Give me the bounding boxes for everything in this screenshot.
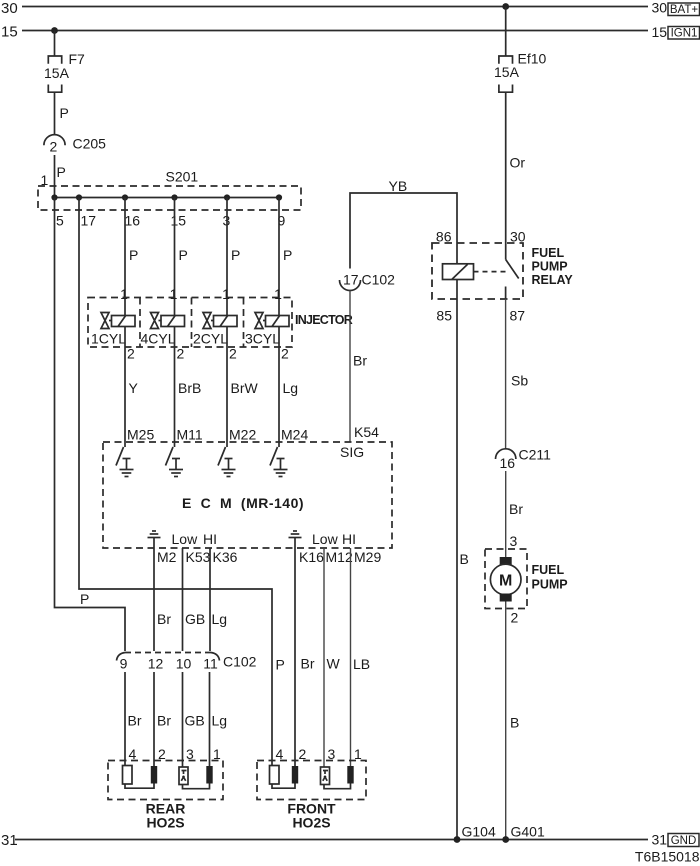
svg-text:M11: M11 [177, 427, 203, 443]
wire fuse Ef10 to relay pin30 (Or) [506, 92, 526, 259]
svg-text:1: 1 [354, 746, 362, 762]
svg-text:P: P [57, 164, 66, 180]
svg-text:15: 15 [1, 24, 18, 41]
wire C102 pin12 to REAR HO2S pin2 (Br) [154, 672, 171, 766]
svg-text:2: 2 [299, 746, 307, 762]
svg-text:B: B [510, 715, 519, 731]
injector 1CYL [91, 313, 135, 347]
svg-text:85: 85 [436, 308, 452, 324]
svg-text:C211: C211 [519, 447, 552, 463]
svg-text:Br: Br [301, 656, 315, 672]
svg-text:15: 15 [171, 213, 187, 229]
ground node G104 [454, 824, 496, 843]
wire sensor to pin1 element [183, 784, 210, 789]
svg-text:Low: Low [172, 531, 199, 547]
svg-text:9: 9 [120, 656, 128, 672]
svg-text:5: 5 [56, 213, 64, 229]
wire relay coil 85 to G104 (B) [457, 280, 469, 840]
svg-text:30: 30 [652, 0, 668, 16]
FRONT HO2S pin1 element [347, 766, 353, 784]
svg-text:Sb: Sb [511, 373, 528, 389]
wire S201 pin17 to FRONT HO2S pin4 (P) [79, 198, 285, 766]
svg-text:YB: YB [389, 178, 408, 194]
svg-text:LB: LB [353, 656, 370, 672]
svg-text:C102: C102 [362, 272, 396, 288]
svg-text:S201: S201 [166, 169, 199, 185]
svg-text:Ef10: Ef10 [518, 51, 547, 67]
svg-text:Br: Br [353, 353, 367, 369]
svg-text:2: 2 [127, 346, 135, 362]
bus 15 (IGN1) [1, 24, 700, 41]
svg-text:IGN1: IGN1 [671, 28, 698, 40]
connector C211 pin 16 [496, 447, 552, 472]
fuse Ef10 15A [494, 51, 547, 93]
svg-text:3CYL: 3CYL [245, 331, 280, 347]
svg-text:BAT+: BAT+ [670, 4, 699, 16]
svg-text:12: 12 [148, 656, 164, 672]
svg-text:P: P [129, 247, 138, 263]
svg-text:1: 1 [170, 286, 178, 302]
wire injector 2CYL pin2 to ECM M22 (BrW) [227, 327, 259, 443]
svg-text:16: 16 [500, 455, 516, 471]
svg-text:Br: Br [157, 713, 171, 729]
svg-text:3: 3 [186, 746, 194, 762]
svg-text:T6B15018: T6B15018 [635, 849, 700, 865]
svg-text:M24: M24 [281, 427, 308, 443]
connector C102 pin 17 [340, 272, 396, 291]
wire relay 87 to C211 (Sb) [506, 299, 529, 449]
svg-text:Low: Low [312, 531, 339, 547]
fuel pump [485, 549, 568, 626]
svg-text:P: P [231, 247, 240, 263]
svg-text:C102: C102 [223, 654, 257, 670]
wire C102 pin10 to REAR HO2S pin3 (GB) [183, 672, 205, 767]
wire ECM M12 to FRONT HO2S pin3 (W) [324, 548, 353, 767]
FRONT HO2S box [257, 746, 366, 831]
svg-text:30: 30 [1, 0, 18, 17]
injector 2CYL [193, 313, 237, 347]
svg-text:P: P [283, 247, 292, 263]
svg-text:16: 16 [125, 213, 141, 229]
wire ECM K53 to C102 pin10 (GB) [183, 548, 211, 651]
REAR HO2S pin1 element [206, 766, 212, 784]
wire heater to pin2 element [125, 784, 154, 789]
FRONT HO2S sensor element pin3 [321, 767, 330, 785]
svg-text:4: 4 [129, 746, 137, 762]
svg-text:GB: GB [185, 611, 205, 627]
wire S201 pin5 to C102 pin9 (P) [55, 198, 126, 652]
svg-text:4: 4 [276, 746, 284, 762]
svg-text:P: P [179, 247, 188, 263]
svg-text:1CYL: 1CYL [91, 331, 126, 347]
svg-text:1: 1 [222, 286, 230, 302]
svg-text:2CYL: 2CYL [193, 331, 228, 347]
wire ECM M29 to FRONT HO2S pin1 (LB) [351, 548, 382, 766]
svg-text:HI: HI [203, 531, 217, 547]
injector 4CYL [141, 313, 185, 347]
svg-text:FUEL: FUEL [532, 246, 565, 260]
svg-text:G401: G401 [511, 824, 545, 840]
svg-text:P: P [60, 105, 69, 121]
svg-text:17: 17 [81, 213, 97, 229]
fuel pump relay box [432, 229, 573, 324]
wire injector 3CYL pin2 to ECM M24 (Lg) [279, 327, 308, 443]
svg-text:15: 15 [652, 24, 668, 40]
svg-text:HI: HI [342, 531, 356, 547]
svg-text:Br: Br [157, 611, 171, 627]
wire ECM K16 to FRONT HO2S pin2 (Br) [295, 548, 324, 766]
svg-text:P: P [276, 657, 285, 673]
svg-text:BrB: BrB [178, 380, 201, 396]
connector C205 pin 2 [44, 135, 106, 155]
bus 30 (BAT+) [1, 0, 700, 17]
relay coil-to-switch dashed link [474, 271, 509, 273]
injector 3CYL [245, 313, 289, 347]
svg-text:PUMP: PUMP [532, 260, 568, 274]
svg-text:M29: M29 [354, 549, 381, 565]
REAR HO2S pin2 element [151, 766, 157, 784]
ECM internal ground above pin M2 [148, 531, 218, 548]
relay switch blade [506, 260, 519, 300]
svg-text:87: 87 [510, 308, 526, 324]
svg-text:P: P [80, 591, 89, 607]
svg-text:Lg: Lg [212, 713, 228, 729]
svg-text:RELAY: RELAY [532, 273, 574, 287]
bus 31 (GND) [1, 832, 699, 850]
svg-text:M12: M12 [326, 549, 353, 565]
svg-text:W: W [327, 656, 341, 672]
svg-text:Lg: Lg [212, 611, 228, 627]
svg-text:2: 2 [511, 610, 519, 626]
svg-text:1: 1 [213, 746, 221, 762]
FRONT HO2S pin2 element [292, 766, 298, 784]
node on bus 15 [51, 27, 58, 34]
ECM injector driver M25 (blade + ground) [116, 442, 134, 477]
svg-text:BrW: BrW [231, 380, 259, 396]
wire C102 pin9 to REAR HO2S pin4 (Br) [125, 672, 142, 766]
wire ECM M2 to C102 pin12 (Br) [154, 548, 177, 651]
svg-text:1: 1 [120, 286, 128, 302]
REAR HO2S box [108, 746, 223, 831]
svg-text:K36: K36 [213, 549, 238, 565]
svg-text:Or: Or [510, 155, 526, 171]
svg-text:K54: K54 [354, 424, 379, 440]
svg-text:F7: F7 [69, 51, 86, 67]
svg-text:M22: M22 [229, 427, 256, 443]
svg-text:Br: Br [509, 501, 523, 517]
wire S201 pin16 to injector 1CYL pin1 (P) [120, 198, 138, 316]
wire C102 pin11 to REAR HO2S pin1 (Lg) [210, 672, 228, 766]
svg-text:2: 2 [158, 746, 166, 762]
svg-text:HO2S: HO2S [146, 815, 184, 831]
ground node G401 [502, 824, 545, 843]
svg-text:Y: Y [129, 380, 139, 396]
wire S201 pin3 to injector 2CYL pin1 (P) [222, 198, 240, 316]
injector assembly box [88, 298, 353, 348]
wire fuse F7 to C205, label P [55, 92, 69, 134]
svg-text:PUMP: PUMP [532, 578, 568, 592]
splice S201 [38, 169, 301, 229]
svg-text:GND: GND [671, 835, 697, 847]
svg-text:M25: M25 [127, 427, 154, 443]
wire S201 pin9 to injector 3CYL pin1 (P) [274, 198, 292, 316]
svg-text:2: 2 [229, 346, 237, 362]
svg-text:K16: K16 [299, 549, 324, 565]
wire sensor to pin1 element [324, 784, 351, 789]
ECM injector driver M24 (blade + ground) [270, 442, 288, 477]
ECM internal ground above pin K16 [289, 531, 357, 548]
svg-text:17: 17 [343, 272, 359, 288]
svg-text:M2: M2 [157, 549, 177, 565]
fuse F7 15A [44, 51, 85, 92]
svg-text:31: 31 [652, 832, 668, 848]
svg-text:C205: C205 [73, 136, 107, 152]
wire bus15 to fuse F7 [54, 31, 56, 57]
svg-text:E C M (MR-140): E C M (MR-140) [182, 495, 304, 511]
svg-text:3: 3 [328, 746, 336, 762]
ECM injector driver M22 (blade + ground) [218, 442, 236, 477]
svg-text:10: 10 [176, 656, 192, 672]
wire ECM K36 to C102 pin11 (Lg) [210, 548, 238, 651]
wire S201 pin15 to injector 4CYL pin1 (P) [170, 198, 188, 316]
wire bus30 to fuse Ef10 [505, 7, 507, 57]
wire C205 to S201, labels 1 and P [41, 155, 66, 198]
svg-text:11: 11 [203, 656, 218, 672]
REAR HO2S sensor element pin3 [179, 767, 188, 785]
ECM box [103, 442, 392, 548]
wire injector 4CYL pin2 to ECM M11 (BrB) [175, 327, 203, 443]
svg-text:FUEL: FUEL [532, 563, 565, 577]
svg-text:HO2S: HO2S [292, 815, 330, 831]
FRONT HO2S heater element pin4 [270, 766, 280, 785]
svg-text:4CYL: 4CYL [141, 331, 176, 347]
svg-text:15A: 15A [494, 64, 520, 80]
svg-text:1: 1 [274, 286, 282, 302]
wire YB: C102 pin17 to relay coil 86 [350, 178, 457, 269]
svg-text:B: B [460, 551, 469, 567]
wire fuel pump pin2 to G401 (B) [506, 602, 520, 840]
svg-text:M: M [499, 573, 512, 590]
svg-text:K53: K53 [186, 549, 211, 565]
svg-text:3: 3 [510, 533, 518, 549]
svg-text:SIG: SIG [340, 444, 364, 460]
REAR HO2S heater element pin4 [123, 766, 133, 785]
ECM injector driver M11 (blade + ground) [166, 442, 184, 477]
svg-text:INJECTOR: INJECTOR [295, 313, 353, 327]
connector C102 (4-way) [117, 653, 257, 672]
svg-text:Br: Br [128, 713, 142, 729]
node on bus 30 [502, 3, 509, 10]
svg-text:2: 2 [177, 346, 185, 362]
svg-text:2: 2 [50, 139, 58, 155]
svg-text:Lg: Lg [283, 380, 299, 396]
svg-text:15A: 15A [44, 65, 70, 81]
svg-text:31: 31 [1, 832, 18, 849]
wire injector 1CYL pin2 to ECM M25 (Y) [125, 327, 154, 443]
svg-text:2: 2 [281, 346, 289, 362]
wire C211 to fuel pump pin3 (Br) [506, 471, 524, 557]
svg-text:G104: G104 [462, 824, 496, 840]
wire heater to pin2 element [272, 784, 295, 789]
relay coil [443, 264, 474, 280]
svg-text:GB: GB [185, 713, 205, 729]
wire C102 pin17 to ECM K54 (Br) [350, 291, 379, 443]
